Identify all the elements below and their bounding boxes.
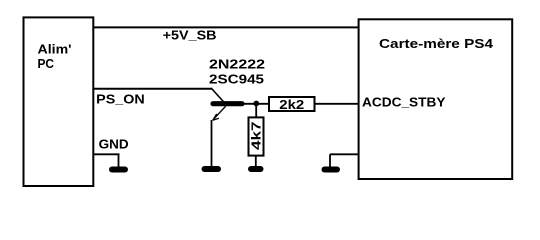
transistor Q1 base lead diagonal <box>212 89 226 105</box>
ground (4k7) <box>251 166 261 172</box>
transistor Q1 emitter with arrow <box>213 106 226 120</box>
wire PS4 to ground <box>330 154 359 167</box>
ground (GND) <box>112 167 125 173</box>
svg-text:PS_ON: PS_ON <box>96 92 145 107</box>
box Alim' PC <box>24 17 94 186</box>
wire 4k7 to ground <box>255 155 257 167</box>
svg-text:Carte-mère PS4: Carte-mère PS4 <box>379 36 494 51</box>
transistor Q1 base bar <box>213 101 242 106</box>
ground (PS4) <box>325 167 338 173</box>
svg-text:ACDC_STBY: ACDC_STBY <box>362 95 446 110</box>
svg-text:PC: PC <box>38 56 55 71</box>
wire collector bar to junction <box>242 103 269 105</box>
svg-text:2SC945: 2SC945 <box>209 72 264 87</box>
wire emitter to ground <box>211 120 213 167</box>
svg-text:2k2: 2k2 <box>279 97 304 112</box>
svg-text:+5V_SB: +5V_SB <box>163 27 217 42</box>
svg-text:2N2222: 2N2222 <box>209 57 265 72</box>
svg-text:GND: GND <box>99 137 129 152</box>
wire junction to 4k7 <box>255 104 257 118</box>
node junction dot <box>253 101 259 107</box>
svg-text:4k7: 4k7 <box>249 121 264 150</box>
ground (emitter) <box>205 166 219 172</box>
wire 2k2 to PS4 <box>315 103 359 105</box>
resistor R2 4k7 <box>249 117 264 155</box>
svg-text:Alim': Alim' <box>38 42 72 57</box>
wire PS_ON <box>93 88 213 90</box>
wire +5V_SB <box>93 26 359 28</box>
resistor R1 2k2 <box>269 97 315 112</box>
box Carte-mère PS4 <box>359 19 513 179</box>
wire GND from Alim box <box>93 154 120 167</box>
